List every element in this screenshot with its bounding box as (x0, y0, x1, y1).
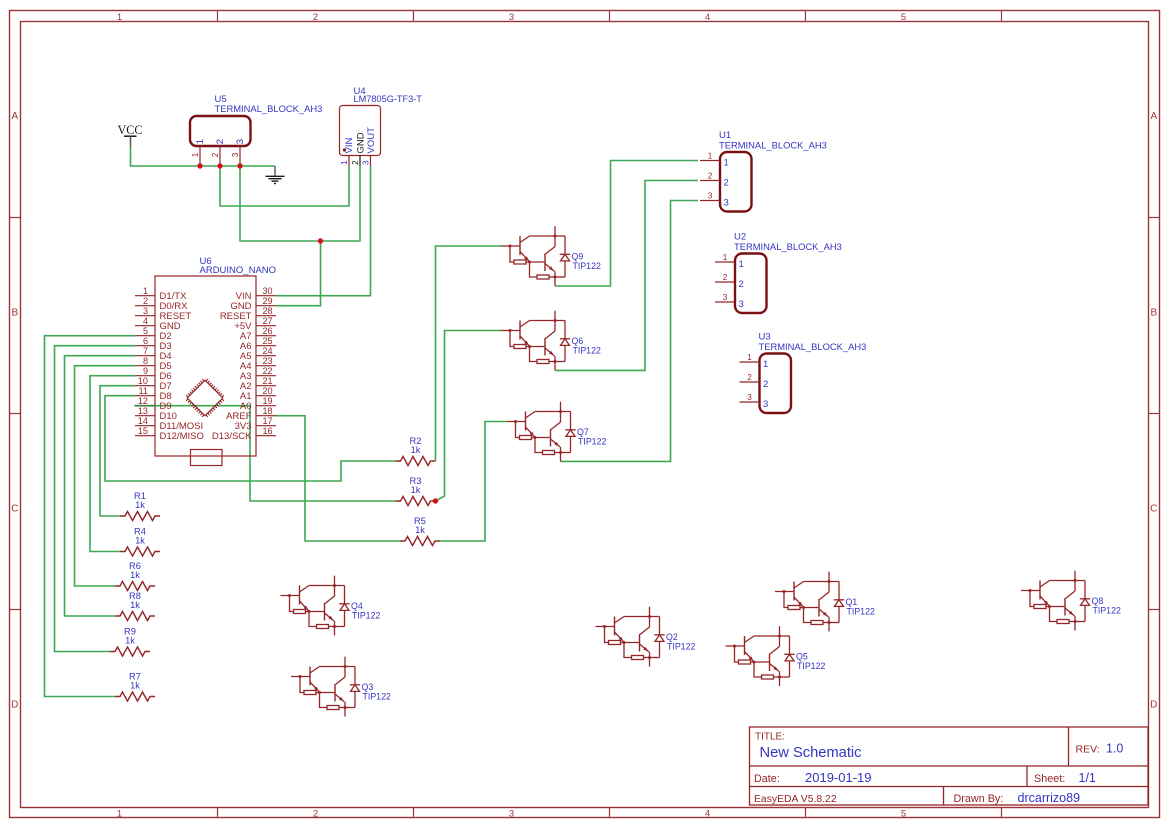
svg-text:2: 2 (313, 12, 318, 23)
U6 chip icon (187, 380, 223, 416)
transistor Q1 TIP122 (775, 572, 875, 632)
svg-text:Q5: Q5 (796, 651, 808, 661)
U6 pin 12 D9 (135, 405, 155, 407)
svg-text:22: 22 (262, 366, 272, 376)
svg-text:9: 9 (143, 366, 148, 376)
svg-text:1/1: 1/1 (1079, 771, 1096, 785)
svg-text:TITLE:: TITLE: (755, 732, 785, 743)
U3 pin 1 (740, 361, 760, 363)
svg-text:3: 3 (747, 393, 752, 402)
svg-text:3: 3 (763, 399, 768, 410)
svg-text:2: 2 (215, 139, 226, 144)
svg-text:TIP122: TIP122 (573, 261, 601, 271)
wire D6 to R4 (90, 376, 135, 552)
svg-text:C: C (1150, 504, 1157, 515)
svg-text:TIP122: TIP122 (363, 692, 391, 702)
svg-text:3: 3 (361, 160, 370, 165)
wire U5 pin3 to U4 GND (240, 166, 360, 241)
junction at R3 output (433, 498, 438, 503)
U1 pin 2 (700, 180, 720, 182)
svg-text:1: 1 (724, 158, 729, 169)
title block (750, 727, 1149, 805)
svg-text:18: 18 (262, 406, 272, 416)
connector U5 TERMINAL_BLOCK_AH3 (190, 94, 322, 166)
svg-text:Date:: Date: (754, 773, 780, 785)
svg-text:TIP122: TIP122 (573, 346, 601, 356)
wire VCC net: VCC symbol to U5 pins 1-3 and ground (131, 146, 276, 166)
svg-text:7: 7 (143, 346, 148, 356)
resistor R7 1k (115, 672, 155, 702)
svg-text:30: 30 (262, 286, 272, 296)
wire R3 to Q6 base (436, 331, 502, 502)
svg-text:TIP122: TIP122 (352, 611, 380, 621)
U6 pin 7 D4 (135, 355, 155, 357)
transistor Q6 TIP122 (501, 311, 601, 371)
wire Q6 emitter to U1 pin2 (555, 181, 698, 371)
svg-text:GND: GND (356, 132, 367, 153)
svg-text:1k: 1k (130, 570, 140, 580)
U6 pin 30 VIN (256, 295, 276, 297)
svg-text:3: 3 (724, 198, 729, 209)
resistor R5 1k (400, 516, 440, 546)
U6 pin 29 GND (256, 305, 276, 307)
svg-text:5: 5 (901, 809, 906, 820)
svg-text:29: 29 (262, 296, 272, 306)
svg-text:1: 1 (143, 286, 148, 296)
U6 pin 27 +5V (256, 325, 276, 327)
wire GND net branch to U6 pin29 (276, 241, 321, 306)
wire D4 to R8 (65, 356, 136, 616)
frame column ticks top (217, 11, 219, 22)
svg-text:5: 5 (901, 12, 906, 23)
svg-text:6: 6 (143, 336, 148, 346)
U1 pin 1 (700, 160, 720, 162)
connector U1 TERMINAL_BLOCK_AH3 (700, 130, 827, 212)
resistor R2 1k (396, 436, 436, 466)
U6 pin 26 A7 (256, 335, 276, 337)
transistor Q7 TIP122 (507, 402, 607, 462)
svg-text:27: 27 (262, 316, 272, 326)
svg-text:A: A (11, 111, 18, 122)
U6 pin 18 AREF (256, 415, 276, 417)
regulator U4 LM7805G-TF3-T (340, 86, 423, 166)
svg-text:1k: 1k (130, 681, 140, 691)
svg-text:26: 26 (262, 326, 272, 336)
transistor Q8 TIP122 (1021, 571, 1121, 631)
U6 pin 10 D7 (135, 385, 155, 387)
wire Q9 emitter to U1 pin1 (555, 161, 698, 287)
transistor Q2 TIP122 (596, 607, 696, 667)
U4 pin-1 marker dot (343, 148, 346, 151)
svg-text:2: 2 (313, 809, 318, 820)
svg-text:2: 2 (708, 172, 713, 181)
U4 pin 1 VIN (348, 156, 350, 167)
svg-text:28: 28 (262, 306, 272, 316)
svg-text:LM7805G-TF3-T: LM7805G-TF3-T (354, 94, 423, 104)
svg-text:1: 1 (117, 12, 122, 23)
junction at U5 pin2 (217, 163, 222, 168)
U6 pin 2 D0/RX (135, 305, 155, 307)
wire D2 to R7 (45, 336, 136, 697)
wire U4 VOUT to U6 VIN pin30 (276, 166, 371, 296)
svg-text:20: 20 (262, 386, 272, 396)
U6 pin 28 RESET (256, 315, 276, 317)
frame row ticks left (10, 217, 21, 219)
svg-text:D13/SCK: D13/SCK (212, 431, 252, 442)
U6 pin 25 A6 (256, 345, 276, 347)
U5 pin 3 (239, 146, 241, 166)
svg-text:TERMINAL_BLOCK_AH3: TERMINAL_BLOCK_AH3 (734, 241, 842, 252)
svg-text:3: 3 (723, 293, 728, 302)
svg-text:4: 4 (143, 316, 148, 326)
svg-text:Q1: Q1 (846, 597, 858, 607)
resistor R1 1k (120, 491, 160, 521)
U6 pin 20 A1 (256, 395, 276, 397)
U6 pin 21 A2 (256, 385, 276, 387)
svg-text:2019-01-19: 2019-01-19 (805, 770, 872, 785)
svg-text:1k: 1k (135, 536, 145, 546)
svg-text:TIP122: TIP122 (1093, 606, 1121, 616)
resistor R4 1k (120, 527, 160, 557)
junction at U5 pin1 (197, 163, 202, 168)
U6 pin 9 D6 (135, 375, 155, 377)
svg-text:TIP122: TIP122 (667, 642, 695, 652)
svg-text:Q3: Q3 (362, 682, 374, 692)
wire R5 to Q7 base (440, 422, 507, 542)
svg-text:VOUT: VOUT (366, 127, 377, 154)
svg-text:8: 8 (143, 356, 148, 366)
svg-text:D12/MISO: D12/MISO (160, 431, 204, 442)
ground symbol (274, 166, 276, 176)
svg-text:16: 16 (262, 426, 272, 436)
svg-text:1: 1 (723, 253, 728, 262)
svg-text:1: 1 (747, 353, 752, 362)
U5 pin 2 (219, 146, 221, 166)
svg-text:14: 14 (138, 416, 148, 426)
svg-text:2: 2 (143, 296, 148, 306)
svg-text:ARDUINO_NANO: ARDUINO_NANO (200, 265, 277, 276)
svg-text:15: 15 (138, 426, 148, 436)
svg-text:1k: 1k (130, 600, 140, 610)
svg-text:B: B (11, 307, 18, 318)
svg-text:3: 3 (143, 306, 148, 316)
svg-text:VCC: VCC (117, 123, 142, 137)
U6 pin 24 A5 (256, 355, 276, 357)
U6 pin 11 D8 (135, 395, 155, 397)
resistor R6 1k (115, 561, 155, 591)
svg-text:10: 10 (138, 376, 148, 386)
resistor R3 1k (396, 476, 436, 506)
U3 pin 3 (740, 401, 760, 403)
wire D7 to R1 (100, 386, 135, 516)
U4 pin 2 GND (359, 156, 361, 167)
svg-text:1k: 1k (411, 485, 421, 495)
U5 pin 1 (199, 146, 201, 166)
U6 pin 17 3V3 (256, 425, 276, 427)
transistor Q3 TIP122 (291, 657, 391, 717)
svg-text:25: 25 (262, 336, 272, 346)
svg-text:drcarrizo89: drcarrizo89 (1018, 791, 1081, 805)
svg-text:1: 1 (739, 259, 744, 270)
mcu U6 ARDUINO_NANO (135, 256, 276, 466)
U2 pin 2 (715, 281, 735, 283)
U6 pin 22 A3 (256, 375, 276, 377)
svg-text:TIP122: TIP122 (797, 661, 825, 671)
wire U5 pin2 to U4 VIN (220, 166, 349, 206)
U6 pin 23 A4 (256, 365, 276, 367)
U6 pin 13 D10 (135, 415, 155, 417)
svg-text:1: 1 (708, 152, 713, 161)
wire D5 to R6 (75, 366, 136, 586)
svg-text:3: 3 (739, 299, 744, 310)
U4 pin 3 VOUT (370, 156, 372, 167)
wire D9 through U6 body to R3 (135, 406, 396, 501)
wire D3 to R9 (55, 346, 136, 652)
svg-text:3: 3 (235, 139, 246, 144)
U6 pin 8 D5 (135, 365, 155, 367)
junction GND net (318, 238, 323, 243)
U6 pin 16 D13/SCK (256, 435, 276, 437)
frame column ticks bottom (217, 808, 219, 818)
svg-text:4: 4 (705, 12, 710, 23)
U6 pin 19 A0 (256, 405, 276, 407)
svg-text:TERMINAL_BLOCK_AH3: TERMINAL_BLOCK_AH3 (215, 103, 323, 114)
svg-text:1: 1 (195, 139, 206, 144)
svg-text:12: 12 (138, 396, 148, 406)
svg-text:A: A (1150, 111, 1157, 122)
svg-text:B: B (1150, 307, 1157, 318)
wire Q7 emitter to U1 pin3 (561, 201, 699, 462)
svg-text:24: 24 (262, 346, 272, 356)
svg-text:1: 1 (117, 809, 122, 820)
U6 pin 4 GND (135, 325, 155, 327)
svg-text:C: C (11, 504, 18, 515)
svg-text:Drawn By:: Drawn By: (954, 793, 1004, 805)
svg-text:2: 2 (739, 279, 744, 290)
svg-text:Q7: Q7 (577, 427, 589, 437)
U2 pin 3 (715, 301, 735, 303)
svg-text:5: 5 (143, 326, 148, 336)
wire D9 overlap on pin 12 (135, 405, 156, 407)
svg-text:Q4: Q4 (351, 601, 363, 611)
junction at U5 pin3 (237, 163, 242, 168)
svg-text:1k: 1k (125, 636, 135, 646)
frame row ticks right (1149, 217, 1160, 219)
svg-text:TERMINAL_BLOCK_AH3: TERMINAL_BLOCK_AH3 (759, 341, 867, 352)
svg-text:New Schematic: New Schematic (760, 745, 862, 761)
svg-text:1: 1 (763, 359, 768, 370)
svg-text:1k: 1k (415, 525, 425, 535)
svg-text:23: 23 (262, 356, 272, 366)
U3 pin 2 (740, 381, 760, 383)
resistor R8 1k (115, 591, 155, 621)
svg-text:Sheet:: Sheet: (1034, 773, 1065, 785)
svg-text:1k: 1k (411, 445, 421, 455)
svg-text:1k: 1k (135, 500, 145, 510)
U6 pin 5 D2 (135, 335, 155, 337)
svg-text:13: 13 (138, 406, 148, 416)
svg-text:D: D (11, 700, 18, 711)
U6 usb connector icon (191, 450, 223, 466)
svg-text:D: D (1150, 700, 1157, 711)
connector U2 TERMINAL_BLOCK_AH3 (715, 231, 842, 313)
svg-text:VIN: VIN (344, 138, 355, 154)
svg-text:4: 4 (705, 809, 710, 820)
svg-text:3: 3 (509, 809, 514, 820)
svg-text:EasyEDA V5.8.22: EasyEDA V5.8.22 (754, 794, 837, 805)
resistor R9 1k (110, 627, 150, 657)
svg-text:Q9: Q9 (572, 251, 584, 261)
svg-text:2: 2 (724, 178, 729, 189)
svg-text:3: 3 (708, 192, 713, 201)
svg-text:Q2: Q2 (666, 632, 678, 642)
svg-text:2: 2 (747, 373, 752, 382)
svg-text:1: 1 (191, 152, 200, 157)
U2 pin 1 (715, 261, 735, 263)
svg-text:11: 11 (139, 386, 148, 396)
connector U3 TERMINAL_BLOCK_AH3 (740, 331, 867, 413)
U1 pin 3 (700, 200, 720, 202)
svg-text:3: 3 (509, 12, 514, 23)
U6 pin 6 D3 (135, 345, 155, 347)
svg-text:TIP122: TIP122 (847, 607, 875, 617)
transistor Q4 TIP122 (281, 576, 381, 636)
U6 pin 1 D1/TX (135, 295, 155, 297)
svg-text:Q8: Q8 (1092, 596, 1104, 606)
U6 pin 3 RESET (135, 315, 155, 317)
svg-text:TIP122: TIP122 (578, 437, 606, 447)
svg-text:1.0: 1.0 (1106, 742, 1123, 756)
svg-text:1: 1 (340, 160, 349, 165)
svg-text:TERMINAL_BLOCK_AH3: TERMINAL_BLOCK_AH3 (719, 139, 827, 150)
svg-text:2: 2 (211, 152, 220, 157)
svg-text:3: 3 (231, 152, 240, 157)
transistor Q5 TIP122 (726, 626, 826, 686)
U6 pin 14 D11/MOSI (135, 425, 155, 427)
wire R2 to Q9 base (436, 246, 502, 461)
svg-text:17: 17 (262, 416, 272, 426)
svg-text:2: 2 (723, 273, 728, 282)
svg-text:2: 2 (763, 379, 768, 390)
U6 pin 15 D12/MISO (135, 435, 155, 437)
svg-text:21: 21 (262, 376, 272, 386)
wire D8 to R2 (105, 396, 396, 481)
svg-text:Q6: Q6 (572, 336, 584, 346)
svg-text:2: 2 (351, 160, 360, 165)
svg-text:REV:: REV: (1076, 744, 1100, 756)
svg-text:19: 19 (262, 396, 272, 406)
transistor Q9 TIP122 (501, 226, 601, 286)
wire AREF pin18 to R5 (275, 416, 400, 541)
